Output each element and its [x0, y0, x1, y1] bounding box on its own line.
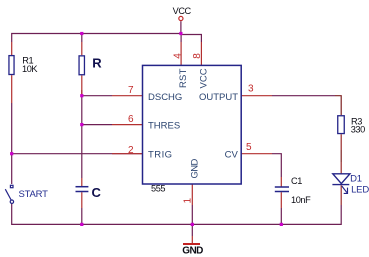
svg-text:VCC: VCC	[173, 6, 192, 16]
svg-text:8: 8	[192, 53, 203, 59]
svg-text:3: 3	[248, 84, 254, 95]
svg-text:1: 1	[183, 198, 194, 204]
svg-text:TRIG: TRIG	[148, 150, 173, 161]
svg-text:4: 4	[172, 53, 183, 59]
svg-text:START: START	[19, 189, 49, 200]
svg-text:555: 555	[151, 184, 165, 194]
svg-text:D1: D1	[350, 174, 362, 185]
svg-text:GND: GND	[182, 246, 203, 257]
svg-text:C: C	[92, 185, 102, 200]
svg-text:5: 5	[246, 142, 252, 153]
svg-text:CV: CV	[225, 150, 239, 161]
svg-text:330: 330	[351, 124, 365, 134]
svg-text:C1: C1	[291, 176, 302, 186]
svg-text:R: R	[92, 56, 102, 71]
svg-text:10nF: 10nF	[291, 195, 311, 205]
svg-text:7: 7	[128, 85, 134, 96]
svg-text:LED: LED	[351, 184, 369, 195]
svg-text:2: 2	[128, 145, 134, 156]
svg-text:DSCHG: DSCHG	[148, 92, 182, 103]
svg-text:6: 6	[128, 114, 134, 125]
svg-text:VCC: VCC	[199, 68, 210, 88]
svg-text:10K: 10K	[22, 64, 38, 74]
svg-text:OUTPUT: OUTPUT	[199, 92, 238, 103]
svg-text:GND: GND	[190, 158, 201, 178]
svg-text:RST: RST	[178, 68, 189, 88]
svg-text:THRES: THRES	[148, 120, 180, 131]
